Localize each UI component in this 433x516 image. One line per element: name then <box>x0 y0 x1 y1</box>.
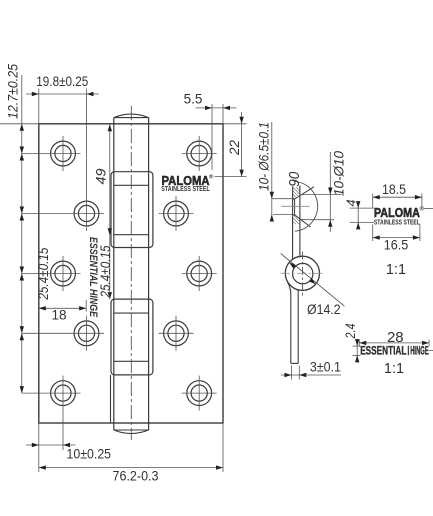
dim 28 <box>358 340 360 347</box>
svg-text:12.7±0.25: 12.7±0.25 <box>5 64 20 119</box>
svg-text:19.8±0.25: 19.8±0.25 <box>36 74 88 89</box>
leaf lower edges <box>288 282 291 363</box>
hole R5 <box>187 381 212 406</box>
svg-text:5.5: 5.5 <box>184 92 203 107</box>
svg-text:3±0.1: 3±0.1 <box>310 360 341 375</box>
leaf curl edge below knuckle K2 <box>110 375 112 423</box>
countersink hatch upper <box>293 187 300 199</box>
detail circle around countersink <box>295 181 318 231</box>
barrel right edge <box>148 118 150 430</box>
side view: leaf cross-section upper edges <box>292 187 294 260</box>
svg-text:STAINLESS STEEL: STAINLESS STEEL <box>374 217 420 226</box>
svg-text:HINGE: HINGE <box>410 346 429 358</box>
svg-text:Ø14.2: Ø14.2 <box>307 302 341 317</box>
dim 19.8±0.25 <box>38 89 40 124</box>
dim 76.2-0.3 <box>38 450 40 472</box>
svg-text:ESSENTIAL HINGE: ESSENTIAL HINGE <box>87 237 99 318</box>
svg-text:25.4±0.15: 25.4±0.15 <box>36 247 51 300</box>
svg-text:10- Ø6.5±0.1: 10- Ø6.5±0.1 <box>257 122 272 191</box>
barrel top cap <box>114 117 149 119</box>
cone-bore junction edge <box>294 199 296 215</box>
svg-text:1:1: 1:1 <box>386 262 406 278</box>
svg-text:76.2-0.3: 76.2-0.3 <box>113 469 159 484</box>
svg-text:18: 18 <box>51 308 66 323</box>
hole R4 <box>164 321 189 346</box>
knuckle K1 (wide) <box>111 172 153 248</box>
dim 2.4 (text height) <box>353 345 361 347</box>
svg-text:4: 4 <box>343 199 358 206</box>
Ø14.2 leader line <box>281 254 345 307</box>
hole R1 <box>187 141 212 166</box>
svg-text:18.5: 18.5 <box>382 182 406 197</box>
svg-text:STAINLESS STEEL: STAINLESS STEEL <box>161 186 210 193</box>
svg-text:49: 49 <box>93 168 108 185</box>
countersink cone lower line <box>295 215 311 227</box>
barrel vertical centerline <box>302 252 304 296</box>
svg-text:10±0.25: 10±0.25 <box>67 446 112 461</box>
barrel bottom cap <box>114 429 149 431</box>
knuckle K2 (wide) <box>111 299 153 375</box>
svg-text:25.4±0.15: 25.4±0.15 <box>98 245 113 298</box>
svg-text:2.4: 2.4 <box>343 324 358 340</box>
dim 22 <box>223 123 247 125</box>
dim 10-Ø10 <box>329 152 331 232</box>
dim 16.5 <box>372 224 374 241</box>
hole R2 <box>164 201 189 226</box>
dim 3±0.1 <box>290 366 292 380</box>
hole L5 <box>51 381 76 406</box>
hole L1 <box>51 141 76 166</box>
svg-text:ESSENTIAL: ESSENTIAL <box>360 346 406 358</box>
right ext tick at hinge text <box>429 349 433 351</box>
countersink hatch lower <box>293 215 300 225</box>
dim 10-Ø6.5±0.1 <box>271 122 273 220</box>
dim 18.5 <box>372 194 374 209</box>
hole L3 <box>51 261 76 286</box>
left chain dimension line <box>21 75 23 393</box>
barrel left edge <box>113 118 115 430</box>
hinge leaf plate outline <box>39 124 223 423</box>
countersink bore walls <box>293 198 295 200</box>
barrel centerline <box>130 106 132 440</box>
dim 18 <box>85 300 87 312</box>
dim 10±0.25 <box>38 423 40 450</box>
right ext tick at logo top <box>424 208 433 210</box>
hole centerline <box>281 205 309 207</box>
svg-text:®: ® <box>209 174 214 181</box>
hole L4 <box>74 321 99 346</box>
svg-text:22: 22 <box>227 140 242 157</box>
svg-text:90: 90 <box>286 171 303 187</box>
svg-text:1:1: 1:1 <box>384 361 404 377</box>
svg-text:10-Ø10: 10-Ø10 <box>332 150 347 196</box>
dim 4 (logo height) <box>350 207 374 209</box>
row extension lines to left chain dimension <box>22 153 81 155</box>
svg-text:28: 28 <box>387 329 404 346</box>
plate top edge extension left <box>0 123 39 125</box>
pin hole circle <box>293 263 313 283</box>
hole L2 <box>74 201 99 226</box>
barrel horizontal centerline <box>281 272 326 274</box>
dim 5.5 <box>211 104 213 170</box>
knuckle barrel circle outer <box>285 256 319 290</box>
dim 49 / 25.4 chain at barrel <box>109 124 111 299</box>
svg-text:16.5: 16.5 <box>384 238 409 253</box>
knuckle division lines <box>114 184 149 186</box>
countersink cone upper line <box>295 187 314 199</box>
hole R3 <box>187 261 212 286</box>
